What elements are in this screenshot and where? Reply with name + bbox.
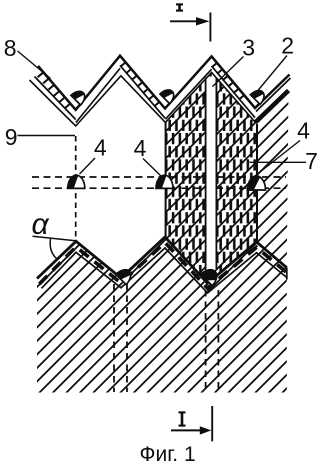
svg-text:4: 4: [134, 135, 147, 161]
svg-text:α: α: [31, 208, 49, 241]
svg-text:8: 8: [4, 35, 17, 61]
svg-text:4: 4: [297, 118, 310, 144]
svg-text:2: 2: [281, 33, 294, 59]
svg-text:4: 4: [94, 135, 107, 161]
svg-text:3: 3: [242, 35, 255, 61]
svg-text:Фиг. 1: Фиг. 1: [140, 443, 196, 466]
svg-text:9: 9: [5, 124, 18, 150]
svg-text:7: 7: [305, 148, 318, 174]
